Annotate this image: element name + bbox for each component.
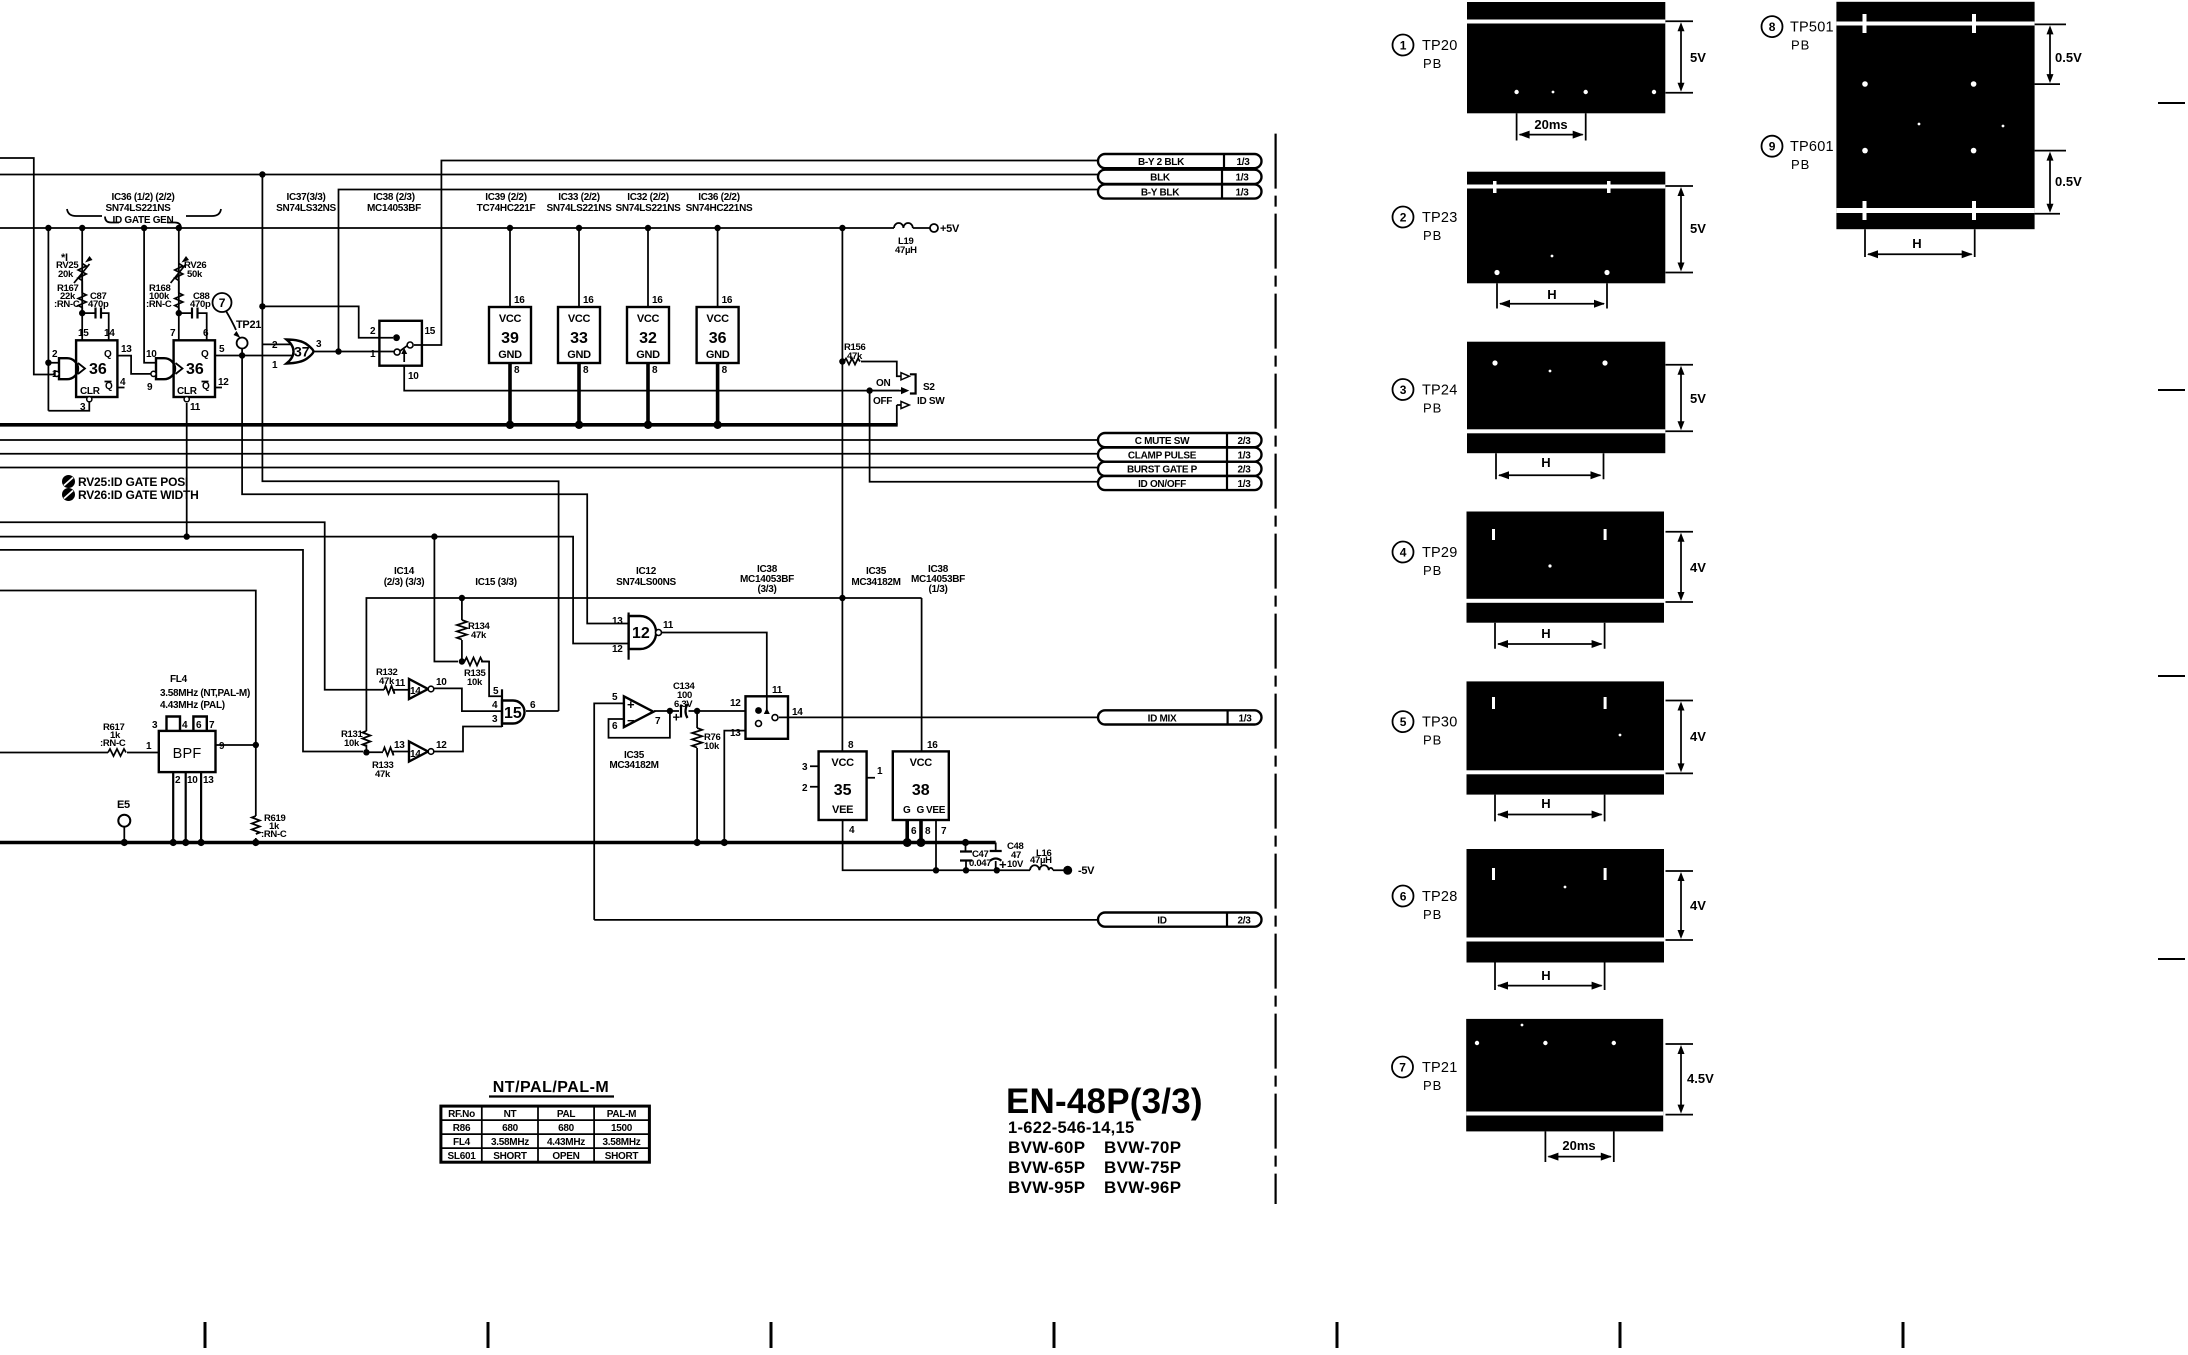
wire inverterB out to AND15 pin3 xyxy=(434,727,502,752)
or-gate IC37 (37) xyxy=(287,340,314,364)
wire TP21 vertical down to NAND12 pin13 line xyxy=(242,349,628,624)
and-gate IC15 (15) xyxy=(501,689,503,727)
svg-text:SHORT: SHORT xyxy=(493,1151,527,1162)
resistor R167 22k xyxy=(78,281,86,313)
svg-text:IC15 (3/3): IC15 (3/3) xyxy=(475,577,516,588)
svg-text:IC32 (2/2): IC32 (2/2) xyxy=(627,192,668,203)
svg-text:+5V: +5V xyxy=(940,223,960,235)
svg-text:H: H xyxy=(1547,287,1556,302)
waveform label 9 xyxy=(1762,136,1783,157)
svg-text:B-Y BLK: B-Y BLK xyxy=(1141,187,1180,198)
svg-text:RF.No: RF.No xyxy=(448,1109,475,1120)
IC supply box 39 xyxy=(489,307,531,363)
svg-text:G: G xyxy=(903,805,911,816)
svg-text:36: 36 xyxy=(89,361,107,378)
svg-text:8: 8 xyxy=(583,365,589,376)
svg-text:4: 4 xyxy=(492,700,498,711)
wire +5V pullup line R131/R134 xyxy=(366,598,921,752)
wire BPF pin9 xyxy=(216,744,256,746)
svg-text:11: 11 xyxy=(663,620,674,631)
dimension 20ms xyxy=(1545,1131,1613,1162)
waveform label 7 xyxy=(1392,1057,1413,1078)
dimension H xyxy=(1865,229,1975,257)
svg-text:8: 8 xyxy=(1769,20,1776,34)
wire -5V rail xyxy=(843,820,1065,870)
wire top-left to NAND pin 1 xyxy=(0,158,54,375)
svg-text:VCC: VCC xyxy=(499,313,522,325)
wire R135 feed vertical xyxy=(434,537,458,662)
IC supply box 38 xyxy=(893,751,949,820)
svg-text:15: 15 xyxy=(78,328,89,339)
svg-text:PB: PB xyxy=(1791,38,1810,53)
capacitor C87 470p xyxy=(96,308,102,319)
svg-text:ID MIX: ID MIX xyxy=(1148,713,1177,724)
svg-text:+: + xyxy=(673,710,681,725)
wire vertical +5V to IC35/IC38 supply xyxy=(841,228,843,751)
inverter IC14b xyxy=(409,742,428,762)
svg-text:VCC: VCC xyxy=(637,313,660,325)
svg-text:ID GATE GEN: ID GATE GEN xyxy=(113,215,174,226)
svg-text:TP501: TP501 xyxy=(1790,20,1834,36)
svg-text:GND: GND xyxy=(567,349,591,361)
terminal +5V xyxy=(930,224,938,232)
svg-text:10: 10 xyxy=(146,349,157,360)
svg-text:BVW-70P: BVW-70P xyxy=(1104,1138,1181,1157)
svg-text:FL4: FL4 xyxy=(170,674,188,685)
svg-text:3: 3 xyxy=(316,339,322,350)
svg-text:PAL-M: PAL-M xyxy=(607,1109,636,1120)
dimension 5V xyxy=(1666,365,1694,432)
node ID flag xyxy=(1098,913,1262,927)
wire R156 row xyxy=(842,362,901,377)
wire ID ON/OFF line from S2 xyxy=(870,391,1098,482)
svg-text:NT/PAL/PAL-M: NT/PAL/PAL-M xyxy=(493,1079,610,1096)
svg-text:8: 8 xyxy=(652,365,658,376)
svg-text:37: 37 xyxy=(294,344,310,360)
svg-text:12: 12 xyxy=(730,698,741,709)
wire C47 xyxy=(965,843,968,871)
wire C134 to IC38(3/3) pin12 xyxy=(689,710,746,712)
node CLAMP PULSE flag xyxy=(1098,448,1262,462)
svg-text:4: 4 xyxy=(120,377,126,388)
svg-text:5: 5 xyxy=(493,686,499,697)
wire branch to box38 pin16 xyxy=(921,598,923,751)
wire GND bus upper xyxy=(0,423,898,427)
svg-text:10k: 10k xyxy=(704,741,720,752)
svg-text:1: 1 xyxy=(370,349,376,360)
svg-text:(1/3): (1/3) xyxy=(928,584,947,595)
svg-text:R86: R86 xyxy=(453,1123,471,1134)
svg-text:PB: PB xyxy=(1423,228,1442,243)
svg-text:10k: 10k xyxy=(344,738,360,749)
svg-text:CLAMP PULSE: CLAMP PULSE xyxy=(1128,451,1197,462)
svg-text:16: 16 xyxy=(514,295,525,306)
svg-text:PB: PB xyxy=(1423,733,1442,748)
svg-text:ID: ID xyxy=(1157,916,1166,927)
IC supply box 36 xyxy=(697,307,739,363)
svg-text:5: 5 xyxy=(219,344,225,355)
svg-text:MC34182M: MC34182M xyxy=(851,577,900,588)
inductor L19 47uH xyxy=(894,223,930,228)
svg-text:SL601: SL601 xyxy=(448,1151,477,1162)
svg-text:36: 36 xyxy=(186,361,204,378)
svg-text:13: 13 xyxy=(121,344,132,355)
svg-text:6: 6 xyxy=(530,700,536,711)
dimension 5V xyxy=(1666,186,1694,273)
svg-text:12: 12 xyxy=(218,377,229,388)
svg-text:SN74LS221NS: SN74LS221NS xyxy=(546,203,612,214)
registration tick marks xyxy=(204,1322,207,1348)
svg-text:TP24: TP24 xyxy=(1422,383,1457,399)
svg-text:TP21: TP21 xyxy=(1422,1060,1457,1076)
svg-text:+: + xyxy=(627,697,635,712)
wire AND15 output up to op-amp net xyxy=(526,710,559,712)
svg-text:BVW-75P: BVW-75P xyxy=(1104,1158,1181,1177)
svg-text:50k: 50k xyxy=(187,269,203,280)
wire IC38(3/3) pin14 to ID MIX flag xyxy=(779,716,1098,718)
oscillogram TP21 PB xyxy=(1466,1019,1663,1132)
svg-text:0.5V: 0.5V xyxy=(2055,50,2082,65)
svg-text:H: H xyxy=(1541,626,1550,641)
svg-text:14: 14 xyxy=(104,328,115,339)
dimension 4V xyxy=(1666,871,1694,940)
svg-text:47k: 47k xyxy=(375,769,391,780)
wire BPF bottom pins xyxy=(173,772,201,842)
waveform label 8 xyxy=(1762,16,1783,37)
wire bus end down to C48 xyxy=(995,843,997,871)
svg-text:PB: PB xyxy=(1423,907,1442,922)
oscillogram TP23 PB xyxy=(1467,172,1665,284)
wire op-amp pin5 from ID line xyxy=(594,703,623,920)
svg-text:20ms: 20ms xyxy=(1534,117,1567,132)
svg-text:MC34182M: MC34182M xyxy=(609,760,658,771)
svg-text:(2/3) (3/3): (2/3) (3/3) xyxy=(384,577,425,588)
svg-text:SN74LS221NS: SN74LS221NS xyxy=(615,203,681,214)
svg-text:2: 2 xyxy=(1400,211,1407,225)
svg-text:IC37(3/3): IC37(3/3) xyxy=(287,192,326,203)
svg-text:IC12: IC12 xyxy=(636,566,657,577)
dimension H xyxy=(1497,283,1607,308)
svg-text:1/3: 1/3 xyxy=(1235,173,1249,184)
wire vertical to FF2 NAND pin10 xyxy=(144,228,151,363)
svg-text:IC38 (2/3): IC38 (2/3) xyxy=(373,192,414,203)
svg-text:TP20: TP20 xyxy=(1422,38,1457,54)
wire R135 to AND15 pin5 xyxy=(481,662,502,697)
svg-text:VCC: VCC xyxy=(568,313,591,325)
wire IC38 pin10 to S2 ON xyxy=(404,366,899,391)
svg-text:5: 5 xyxy=(1400,715,1407,729)
svg-text:GND: GND xyxy=(706,349,730,361)
svg-text:7: 7 xyxy=(209,720,215,731)
wire R134 vertical xyxy=(461,598,463,662)
svg-text:5V: 5V xyxy=(1690,221,1706,236)
svg-text:3: 3 xyxy=(802,762,808,773)
IC supply box 33 xyxy=(558,307,600,363)
node ID MIX flag xyxy=(1098,710,1262,724)
svg-text:20k: 20k xyxy=(58,269,74,280)
svg-text:OPEN: OPEN xyxy=(552,1151,579,1162)
svg-text:1/3: 1/3 xyxy=(1236,157,1250,168)
svg-text:13: 13 xyxy=(394,740,405,751)
flip-flop IC36a (FF1) xyxy=(76,340,117,397)
svg-text:ON: ON xyxy=(876,378,890,389)
svg-text:-5V: -5V xyxy=(1078,865,1095,877)
wire R131 bottom to R133 xyxy=(366,751,383,753)
dashed page divider xyxy=(1274,134,1276,1204)
wire ID line to flag xyxy=(594,919,1098,921)
svg-text:IC33 (2/2): IC33 (2/2) xyxy=(558,192,599,203)
svg-text:Q: Q xyxy=(202,381,210,392)
svg-text:1: 1 xyxy=(1400,39,1407,53)
svg-text:H: H xyxy=(1541,455,1550,470)
svg-text:3: 3 xyxy=(492,714,498,725)
svg-text:BVW-60P: BVW-60P xyxy=(1008,1138,1085,1157)
trimmer RV25 20k xyxy=(74,264,90,284)
svg-text:3: 3 xyxy=(1400,383,1407,397)
wire R76 vertical xyxy=(696,711,698,843)
svg-text:BPF: BPF xyxy=(173,746,202,762)
resistor R132 47k xyxy=(384,686,395,694)
svg-text:16: 16 xyxy=(583,295,594,306)
svg-text:47k: 47k xyxy=(379,676,395,687)
resistor R76 10k xyxy=(692,728,702,748)
wire BLK net (y=174) xyxy=(0,174,1098,176)
dimension 0.5V upper xyxy=(2035,24,2066,84)
svg-text:IC39 (2/2): IC39 (2/2) xyxy=(485,192,526,203)
svg-text:6.3V: 6.3V xyxy=(674,699,693,710)
node junction BLK/vertical xyxy=(259,171,265,177)
svg-text:−: − xyxy=(627,713,635,728)
svg-text:IC36 (1/2) (2/2): IC36 (1/2) (2/2) xyxy=(111,192,174,203)
svg-text:3: 3 xyxy=(80,402,86,413)
svg-text:11: 11 xyxy=(190,402,201,413)
svg-text:PB: PB xyxy=(1791,157,1810,172)
svg-text:4.43MHz (PAL): 4.43MHz (PAL) xyxy=(160,700,225,711)
inverter IC14a xyxy=(409,679,428,699)
node ID ON/OFF flag xyxy=(1098,476,1262,490)
svg-text:7: 7 xyxy=(170,328,176,339)
wire FF2 pin11 line to NAND12 pin12 xyxy=(0,537,629,644)
analog switch IC38 (3/3) xyxy=(746,696,789,739)
wire B-Y BLK from OR-37 output xyxy=(339,190,1099,352)
svg-text:1/3: 1/3 xyxy=(1237,451,1251,462)
svg-text:10: 10 xyxy=(436,677,447,688)
svg-text:CLR: CLR xyxy=(177,386,198,397)
svg-text:11: 11 xyxy=(772,685,783,696)
node C MUTE SW flag xyxy=(1098,433,1262,447)
capacitor C48 47 10V xyxy=(990,851,1002,861)
svg-text:NT: NT xyxy=(504,1109,517,1120)
waveform label 1 xyxy=(1393,35,1414,56)
resistor R619 1k xyxy=(252,816,260,834)
wire inverter13 feed line xyxy=(0,550,363,752)
wire GND bus lower xyxy=(0,841,996,845)
svg-text:6: 6 xyxy=(612,721,618,732)
svg-text:BVW-96P: BVW-96P xyxy=(1104,1178,1181,1197)
waveform label 4 xyxy=(1393,542,1414,563)
svg-text:14: 14 xyxy=(410,686,421,697)
svg-text:6: 6 xyxy=(911,826,917,837)
op-amp IC35 xyxy=(624,696,654,727)
svg-text:Q: Q xyxy=(201,349,209,360)
node BURST GATE P flag xyxy=(1098,462,1262,476)
wire vertical RV26 chain xyxy=(178,228,180,340)
svg-text:7: 7 xyxy=(219,296,226,310)
svg-text:TP30: TP30 xyxy=(1422,715,1457,731)
svg-text:8: 8 xyxy=(722,365,728,376)
svg-text:2: 2 xyxy=(272,340,278,351)
svg-text::RN-C: :RN-C xyxy=(146,299,172,310)
svg-text:47µH: 47µH xyxy=(1030,855,1052,866)
svg-text:TP29: TP29 xyxy=(1422,545,1457,561)
svg-text::RN-C: :RN-C xyxy=(261,829,287,840)
svg-text:10: 10 xyxy=(408,371,419,382)
svg-text:3.58MHz: 3.58MHz xyxy=(603,1137,641,1148)
svg-text:E5: E5 xyxy=(117,799,130,811)
svg-text:1/3: 1/3 xyxy=(1235,187,1249,198)
node GND bus lower junctions xyxy=(121,839,128,846)
wire FF2 pin11 vertical xyxy=(186,403,188,537)
svg-text:470p: 470p xyxy=(190,299,211,310)
svg-text:PAL: PAL xyxy=(557,1109,576,1120)
svg-text:2/3: 2/3 xyxy=(1237,465,1251,476)
terminal E5 xyxy=(118,815,130,827)
svg-text:4.43MHz: 4.43MHz xyxy=(547,1137,585,1148)
oscillogram TP29 PB xyxy=(1467,512,1665,623)
svg-text:RV26:ID GATE WIDTH: RV26:ID GATE WIDTH xyxy=(78,488,199,502)
svg-text:47k: 47k xyxy=(847,351,863,362)
svg-text:10V: 10V xyxy=(1007,859,1024,870)
wire VEE pin of box38 xyxy=(935,820,937,870)
svg-text:13: 13 xyxy=(203,775,214,786)
svg-text:PB: PB xyxy=(1423,56,1442,71)
svg-text:S2: S2 xyxy=(923,382,935,393)
wire IC38 pin2 branch xyxy=(262,306,393,337)
svg-text:VEE: VEE xyxy=(926,805,946,816)
svg-text:9: 9 xyxy=(1769,140,1776,154)
svg-text:OFF: OFF xyxy=(873,396,892,407)
svg-text:VCC: VCC xyxy=(706,313,729,325)
capacitor C134 100 6.3V xyxy=(681,704,688,718)
wire IC38(3/3) pin13 to GND bus xyxy=(724,731,745,843)
svg-text:+: + xyxy=(999,857,1007,872)
svg-text:12: 12 xyxy=(436,740,447,751)
svg-text:6: 6 xyxy=(196,720,202,731)
svg-text:4: 4 xyxy=(182,720,188,731)
IC supply box 32 xyxy=(627,307,669,363)
svg-text:680: 680 xyxy=(558,1123,575,1134)
wire R619 vertical xyxy=(255,745,257,843)
svg-text:1: 1 xyxy=(52,369,58,380)
svg-text:680: 680 xyxy=(502,1123,519,1134)
svg-text:SHORT: SHORT xyxy=(605,1151,639,1162)
svg-text:5: 5 xyxy=(612,692,618,703)
svg-text:FL4: FL4 xyxy=(453,1137,471,1148)
wire +5V rail xyxy=(0,227,894,229)
svg-text:11: 11 xyxy=(395,678,406,689)
oscillogram TP28 PB xyxy=(1467,849,1665,963)
dimension H xyxy=(1495,623,1605,649)
wire CLAMP PULSE line xyxy=(0,453,1098,455)
svg-text:12: 12 xyxy=(632,625,650,642)
svg-text:PB: PB xyxy=(1423,563,1442,578)
wire vertical to FF1 NAND pin2/CLR xyxy=(48,228,89,411)
svg-text:36: 36 xyxy=(709,330,727,347)
svg-text:1/3: 1/3 xyxy=(1238,713,1252,724)
svg-text:1: 1 xyxy=(877,766,883,777)
svg-text:SN74LS221NS: SN74LS221NS xyxy=(105,203,171,214)
svg-text:RV25:ID GATE POSI: RV25:ID GATE POSI xyxy=(78,475,188,489)
test point TP21 xyxy=(237,338,248,349)
svg-text:TP23: TP23 xyxy=(1422,210,1457,226)
svg-text:2: 2 xyxy=(52,349,58,360)
svg-text:0.047: 0.047 xyxy=(969,858,991,869)
svg-text:33: 33 xyxy=(570,330,588,347)
annotation RV25/RV26 xyxy=(62,475,75,488)
svg-text:H: H xyxy=(1912,236,1921,251)
wire R133 to inverterB xyxy=(392,751,408,753)
wire op-amp output to C134 xyxy=(654,710,679,712)
wire inverterA out to AND15 pin4 xyxy=(434,688,502,711)
svg-text:35: 35 xyxy=(834,782,852,799)
svg-text:4: 4 xyxy=(1400,546,1407,560)
wire FF2 pin5 to OR input xyxy=(215,355,292,357)
svg-text:SN74LS32NS: SN74LS32NS xyxy=(276,203,336,214)
wire op-amp feedback pin6 xyxy=(609,711,670,738)
svg-text::RN-C: :RN-C xyxy=(100,738,126,749)
svg-text:PB: PB xyxy=(1423,401,1442,416)
trimmer RV26 50k xyxy=(171,264,186,284)
wire OR37 output to IC38 pin1 xyxy=(313,351,394,353)
waveform label 6 xyxy=(1393,886,1414,907)
svg-text:12: 12 xyxy=(612,644,623,655)
svg-text:3.58MHz (NT,PAL-M): 3.58MHz (NT,PAL-M) xyxy=(160,688,250,699)
svg-text:39: 39 xyxy=(501,330,519,347)
svg-text:2: 2 xyxy=(802,783,808,794)
svg-text::RN-C: :RN-C xyxy=(54,299,80,310)
waveform label 3 xyxy=(1393,379,1414,400)
svg-text:4.5V: 4.5V xyxy=(1687,1071,1714,1086)
svg-text:1500: 1500 xyxy=(611,1123,633,1134)
svg-text:4V: 4V xyxy=(1690,729,1706,744)
svg-text:TP28: TP28 xyxy=(1422,889,1457,905)
svg-text:7: 7 xyxy=(655,716,661,727)
svg-text:TC74HC221F: TC74HC221F xyxy=(477,203,536,214)
resistor R617 1k xyxy=(108,749,126,756)
svg-text:2: 2 xyxy=(370,326,376,337)
flip-flop IC36b (FF2) xyxy=(174,340,215,397)
wire GND to S2 OFF xyxy=(896,405,898,425)
svg-text:7: 7 xyxy=(941,826,947,837)
svg-text:32: 32 xyxy=(639,330,657,347)
svg-text:10: 10 xyxy=(187,775,198,786)
resistor R168 100k xyxy=(175,281,183,313)
svg-text:ID SW: ID SW xyxy=(917,396,945,407)
svg-text:7: 7 xyxy=(1399,1061,1406,1075)
svg-text:IC35: IC35 xyxy=(866,566,887,577)
svg-text:G: G xyxy=(917,805,925,816)
resistor R135 10k xyxy=(462,658,489,666)
dimension H xyxy=(1495,795,1605,822)
svg-text:Q: Q xyxy=(104,349,112,360)
svg-text:1: 1 xyxy=(272,360,278,371)
oscillogram TP30 PB xyxy=(1467,681,1665,794)
node BLK flag xyxy=(1098,170,1262,184)
svg-text:2: 2 xyxy=(175,775,181,786)
svg-text:Q: Q xyxy=(105,381,113,392)
svg-text:4: 4 xyxy=(849,825,855,836)
svg-text:5V: 5V xyxy=(1690,50,1706,65)
